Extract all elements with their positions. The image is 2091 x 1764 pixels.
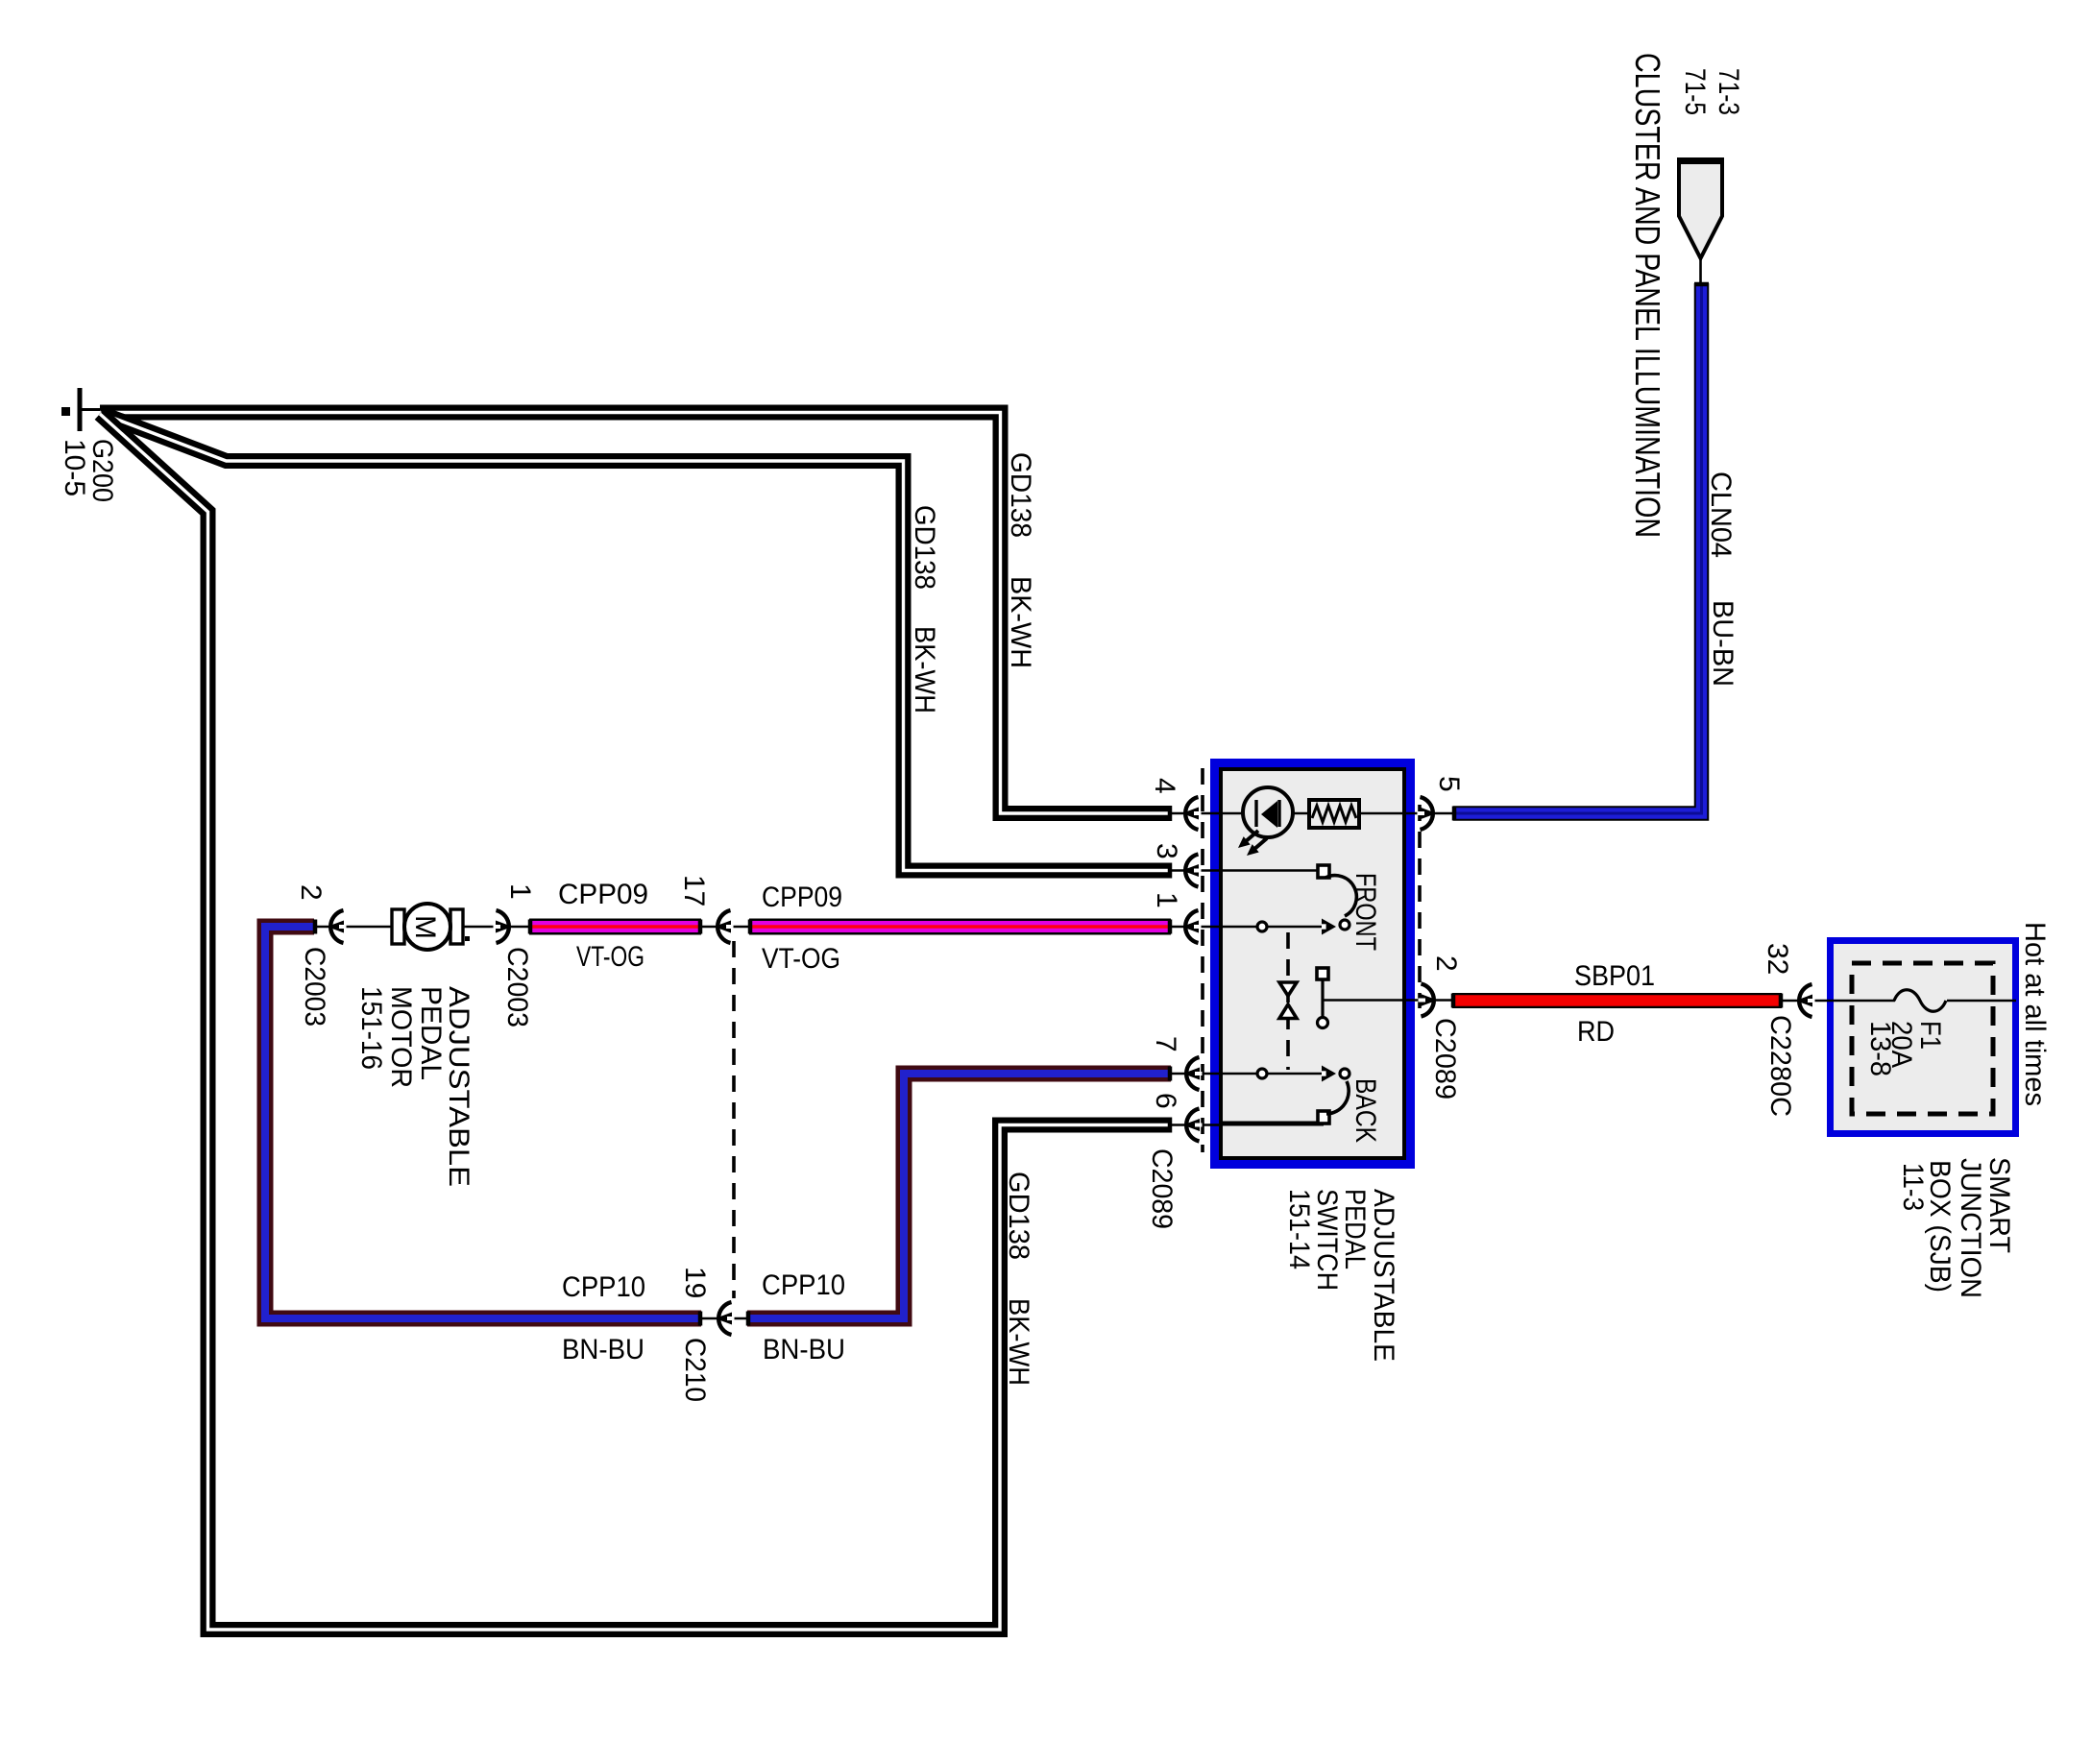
svg-text:F1: F1 (1914, 1021, 1946, 1050)
off-page connector pentagon (cluster illumination) (1677, 161, 1724, 284)
svg-text:BU-BN: BU-BN (1707, 600, 1738, 687)
svg-text:GD138: GD138 (1005, 452, 1036, 538)
svg-text:M: M (409, 915, 441, 939)
motor M adjustable pedal motor (392, 904, 470, 950)
wire GD138 ground loop to switch pin 6 (100, 414, 1171, 1630)
svg-text:19: 19 (679, 1267, 711, 1298)
svg-text:RD: RD (1577, 1016, 1615, 1048)
svg-text:1: 1 (1151, 892, 1182, 908)
wire CLN04 BU-BN switch pin 5 to cluster illumination (1453, 283, 1702, 813)
svg-text:3: 3 (1151, 843, 1182, 859)
svg-text:GD138: GD138 (1003, 1172, 1034, 1260)
BACK switch wiper arc (1326, 1081, 1349, 1114)
connector arrow switch pin 3 (1182, 855, 1202, 887)
connector arrow motor pin 2 (328, 910, 347, 943)
lead motor pin 2 (314, 926, 394, 929)
svg-text:BN-BU: BN-BU (763, 1334, 845, 1365)
center feed bar to pin 2 (1317, 968, 1406, 1028)
junction dot on pin 7 line (1257, 1069, 1267, 1078)
FRONT switch moving contact arrow (pin 1) (1322, 919, 1336, 935)
connector arrow switch pin 2 (1419, 984, 1438, 1017)
svg-text:2: 2 (295, 884, 327, 901)
svg-text:PEDAL: PEDAL (415, 986, 447, 1080)
svg-text:71-3: 71-3 (1713, 68, 1744, 115)
connector arrow switch pin 1 (1182, 910, 1202, 943)
BACK switch moving contact arrow (pin 7) (1322, 1066, 1336, 1082)
svg-text:71-5: 71-5 (1679, 68, 1711, 115)
svg-text:MOTOR: MOTOR (385, 986, 417, 1088)
smart junction box body (1831, 941, 2016, 1134)
svg-text:CPP10: CPP10 (562, 1271, 645, 1303)
svg-text:7: 7 (1150, 1036, 1181, 1052)
lead motor pin 1 (461, 926, 529, 929)
svg-text:JUNCTION: JUNCTION (1955, 1158, 1986, 1298)
dashed linkage C210 between pins 17 and 19 (732, 941, 736, 1298)
connector arrow SJB pin 32 (1796, 984, 1815, 1017)
lead switch pin 5 to CLN04 (1359, 812, 1453, 815)
svg-text:CPP09: CPP09 (558, 879, 648, 910)
wire GD138 ground to switch pin 3 (100, 413, 1171, 871)
resistor inside switch (1309, 800, 1359, 828)
svg-text:C2089: C2089 (1429, 1018, 1461, 1099)
lead switch pin 2 to SBP01 (1406, 999, 1452, 1002)
svg-text:C2003: C2003 (501, 947, 533, 1027)
connector arrow motor pin 1 (494, 910, 513, 943)
svg-text:VT-OG: VT-OG (576, 941, 644, 973)
svg-text:BK-WH: BK-WH (1005, 576, 1036, 668)
lead switch pin 6 (1171, 1124, 1324, 1125)
mechanical linkage dashed with detent (1279, 932, 1297, 1070)
lead switch pin 4 (1171, 812, 1245, 815)
wire CPP09 VT-OG motor to C210 pin 17 (529, 919, 701, 935)
fuse F1 element (1894, 990, 1946, 1012)
connector arrow switch pin 5 (1418, 797, 1437, 830)
svg-text:GD138: GD138 (909, 505, 940, 590)
wire GD138 ground to switch pin 4 (100, 413, 1171, 814)
svg-text:4: 4 (1149, 778, 1180, 794)
svg-text:VT-OG: VT-OG (762, 943, 840, 975)
dashed connector line C2089 left (1201, 768, 1204, 1152)
wire CPP10 BN-BU C210 pin 19 to switch pin 7 (747, 1074, 1171, 1318)
svg-text:BK-WH: BK-WH (1003, 1298, 1034, 1386)
svg-text:13-8: 13-8 (1864, 1021, 1896, 1076)
svg-text:11-3: 11-3 (1897, 1163, 1929, 1211)
wire end caps (315, 284, 1781, 1326)
svg-text:BK-WH: BK-WH (909, 626, 940, 713)
wire CPP09 VT-OG C210 pin 17 to switch pin 1 (749, 919, 1171, 935)
svg-text:151-14: 151-14 (1283, 1189, 1315, 1269)
svg-text:CLUSTER AND PANEL ILLUMINATION: CLUSTER AND PANEL ILLUMINATION (1628, 53, 1667, 538)
svg-text:10-5: 10-5 (59, 439, 90, 496)
BACK switch pivot (1340, 1069, 1349, 1078)
lead C210 pin 17 (701, 926, 751, 929)
dashed connector line C2089 right (1418, 805, 1422, 1008)
connector arrow switch pin 7 (1183, 1057, 1203, 1090)
svg-text:C210: C210 (679, 1338, 711, 1402)
svg-text:BN-BU: BN-BU (562, 1334, 644, 1365)
lead C210 pin 19 (701, 1317, 749, 1320)
svg-text:5: 5 (1433, 776, 1465, 792)
svg-text:17: 17 (678, 875, 710, 906)
FRONT switch pivot (1340, 920, 1349, 930)
svg-text:2: 2 (1430, 955, 1462, 972)
svg-text:151-16: 151-16 (355, 986, 387, 1070)
lamp to resistor wire (1293, 812, 1309, 815)
svg-text:CLN04: CLN04 (1705, 471, 1737, 558)
svg-text:6: 6 (1150, 1093, 1181, 1109)
lamp with illumination arrows inside switch (1238, 787, 1293, 856)
svg-text:1: 1 (504, 883, 536, 900)
svg-text:BACK: BACK (1349, 1078, 1381, 1143)
SJB internal dashed boundary (1852, 963, 1993, 1114)
svg-text:32: 32 (1762, 943, 1793, 975)
svg-text:SBP01: SBP01 (1574, 960, 1655, 992)
lead SBP01 to fuse in SJB (1782, 1000, 1895, 1003)
svg-text:CPP09: CPP09 (762, 882, 842, 913)
svg-text:SMART: SMART (1983, 1157, 2015, 1253)
svg-text:C2003: C2003 (299, 947, 330, 1027)
junction dot on pin 1 line (1257, 922, 1267, 931)
wire SBP01 RD switch pin 2 to SJB fuse F1 (1452, 993, 1782, 1008)
lead switch pin 3 (1171, 869, 1320, 872)
connector arrow C210 pin 19 (716, 1302, 735, 1335)
BACK switch contact pad (pin 6) (1318, 1111, 1329, 1124)
connector arrow C210 pin 17 (715, 910, 734, 943)
svg-text:CPP10: CPP10 (762, 1269, 845, 1301)
connector arrow switch pin 4 (1182, 797, 1202, 830)
ground G200 symbol (61, 388, 100, 431)
switch box ADJUSTABLE PEDAL SWITCH body (1215, 763, 1411, 1165)
connector arrow switch pin 6 (1183, 1109, 1203, 1142)
svg-text:FRONT: FRONT (1349, 873, 1381, 951)
svg-text:ADJUSTABLE: ADJUSTABLE (1368, 1189, 1399, 1362)
lead switch pin 1 (1171, 926, 1322, 929)
lead switch pin 7 (1171, 1073, 1322, 1075)
svg-text:C2089: C2089 (1146, 1148, 1178, 1229)
lead fuse to SJB right wall (1947, 1000, 2016, 1003)
FRONT switch wiper arc (1325, 876, 1356, 916)
FRONT switch contact pad (pin 3) (1318, 865, 1329, 878)
wire CPP10 BN-BU motor to C210 pin 19 (265, 927, 701, 1318)
svg-text:Hot at all times: Hot at all times (2019, 922, 2051, 1106)
svg-text:C2280C: C2280C (1764, 1015, 1796, 1117)
